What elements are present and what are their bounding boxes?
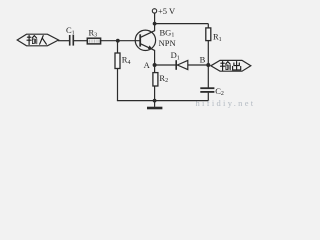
wire R2 top leg [154, 65, 156, 73]
transistor BG1 [135, 24, 155, 65]
svg-text:B: B [200, 55, 206, 65]
wire input to C1 [58, 40, 69, 42]
svg-text:A: A [144, 60, 151, 70]
wire R1 top leg [207, 24, 209, 28]
wire top rail +5V to R1 [155, 23, 209, 25]
capacitor C1 [70, 35, 74, 46]
svg-text:hifidiy.net: hifidiy.net [196, 98, 256, 108]
svg-text:NPN: NPN [159, 38, 176, 48]
wire node A to node B through D1 [155, 64, 209, 66]
diode D1 [176, 60, 188, 70]
wire +5V supply drop [154, 13, 156, 24]
wire R4 top leg [117, 41, 119, 53]
wire R3 to base (base net) [101, 40, 140, 42]
resistor R3 [87, 38, 100, 44]
node B [206, 63, 210, 67]
wire R1 bottom leg to node B [207, 41, 209, 65]
output label 输出 (drawn strokes) [221, 62, 241, 71]
resistor R4 [115, 53, 120, 69]
wire R2 bottom leg [154, 86, 156, 101]
wire C2 to ground rail [207, 93, 209, 101]
wire R4 bottom leg to ground rail [117, 69, 119, 101]
wire node B to C2 [207, 65, 209, 88]
emitter [141, 44, 155, 65]
node: R2/ground junction [153, 99, 157, 103]
input hexagon port [17, 34, 58, 46]
capacitor C2 [200, 88, 214, 92]
wire C1 to R3 [74, 40, 87, 42]
wire ground rail [117, 100, 208, 102]
node A [153, 63, 157, 67]
node: base/R4 junction [116, 39, 120, 43]
output hexagon port [211, 60, 251, 71]
node: collector junction [153, 22, 157, 26]
svg-text:+5 V: +5 V [158, 6, 176, 16]
collector [141, 24, 155, 38]
input label 输入 (drawn strokes) [27, 35, 46, 44]
ground [147, 101, 162, 108]
resistor R2 [153, 73, 158, 86]
resistor R1 [206, 28, 211, 41]
+5V supply terminal [152, 9, 156, 13]
emitter arrow [148, 45, 153, 49]
